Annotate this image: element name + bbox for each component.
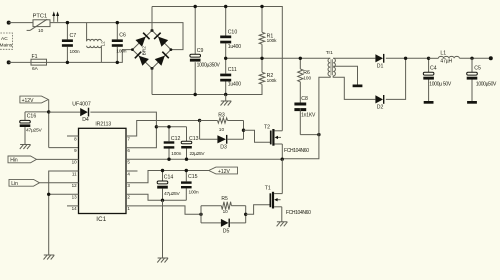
label box AC Mains xyxy=(0,33,13,49)
svg-text:C15: C15 xyxy=(188,174,198,180)
svg-text:C16: C16 xyxy=(27,114,37,120)
junction +12V node xyxy=(47,110,50,113)
svg-text:+12V: +12V xyxy=(22,98,34,104)
wire pin 1 to R5/D5 xyxy=(126,206,201,214)
svg-text:1u400: 1u400 xyxy=(228,44,242,50)
transistor T1 xyxy=(265,185,311,216)
junction C11 bottom xyxy=(224,93,227,96)
wire primary bottom to half-bridge midpoint xyxy=(282,76,330,159)
svg-text:1u400: 1u400 xyxy=(228,81,242,87)
wire mid rail xyxy=(226,57,331,59)
ground under C4 xyxy=(424,101,434,104)
ground under C11 xyxy=(221,95,232,106)
transistor T2 xyxy=(264,124,309,154)
svg-text:10: 10 xyxy=(72,160,78,165)
svg-text:D4: D4 xyxy=(82,117,89,123)
junction pin13/ground rail xyxy=(47,193,50,196)
svg-text:T2: T2 xyxy=(264,124,270,130)
svg-text:100k: 100k xyxy=(267,38,278,43)
svg-text:C13: C13 xyxy=(189,136,199,142)
junction C6 top xyxy=(116,21,119,24)
junction C10/C11 mid xyxy=(224,57,227,60)
junction snubber/primary node xyxy=(317,133,320,136)
wire to T2 gate xyxy=(244,130,271,142)
wire pin 6 to VB node xyxy=(126,127,156,148)
svg-text:C12: C12 xyxy=(171,136,181,142)
junction half-bridge midpoint xyxy=(281,158,284,161)
svg-text:1000µ 50V: 1000µ 50V xyxy=(429,81,452,87)
capacitor C12 xyxy=(164,127,182,159)
wire VS rail pin 5 to midpoint xyxy=(126,158,282,160)
svg-text:1: 1 xyxy=(127,206,130,211)
wire +12V node to D4 xyxy=(49,111,80,113)
svg-text:D5: D5 xyxy=(223,229,230,235)
wire Hin to pin 10 xyxy=(37,158,79,160)
svg-text:C6: C6 xyxy=(119,33,126,39)
svg-text:100k: 100k xyxy=(267,78,278,83)
net flag Lin xyxy=(9,179,40,187)
svg-text:3: 3 xyxy=(127,183,130,188)
capacitor C11 xyxy=(220,58,241,94)
svg-text:IR2113: IR2113 xyxy=(95,121,111,127)
resistor R6 xyxy=(298,58,312,102)
terminal AC neutral xyxy=(7,60,11,64)
junction C14 top xyxy=(161,169,164,172)
wire bridge minus to bottom rail xyxy=(151,69,153,95)
wire D1 cathode to output node xyxy=(386,57,429,59)
junction C9 bottom xyxy=(194,93,197,96)
svg-text:L2: L2 xyxy=(100,41,105,46)
wire AC neutral: F1 to bridge left vertex (jog) xyxy=(47,50,133,63)
wire T2 source to midpoint xyxy=(281,144,283,159)
junction VB node xyxy=(155,125,158,128)
resistor R2 xyxy=(259,58,277,94)
wire L1 to output terminal xyxy=(459,57,490,59)
svg-text:C10: C10 xyxy=(228,30,238,36)
wire C4 node to L1 xyxy=(429,57,439,59)
wire D2 cathode up to output node xyxy=(386,58,406,99)
junction bridge right vertex xyxy=(170,48,173,51)
diode D4 xyxy=(72,101,91,122)
svg-text:7: 7 xyxy=(127,136,130,141)
wire C8 to primary bottom node xyxy=(300,134,319,136)
transformer Tr1 xyxy=(326,50,336,76)
capacitor C7 xyxy=(62,23,80,63)
junction L1/C5 xyxy=(470,57,473,60)
svg-text:D2: D2 xyxy=(377,105,384,111)
wire to T1 gate xyxy=(246,205,270,215)
ground COM xyxy=(158,257,169,259)
svg-text:FCH104N60: FCH104N60 xyxy=(284,148,309,154)
svg-text:13: 13 xyxy=(72,195,78,200)
svg-text:1n1KV: 1n1KV xyxy=(301,112,316,118)
svg-text:+12V: +12V xyxy=(218,169,230,175)
svg-text:100: 100 xyxy=(303,76,311,81)
wire node to IC pin 9 xyxy=(49,147,79,149)
wire pin 2 to COM rail xyxy=(126,194,186,200)
wire secondary center tap xyxy=(333,66,357,84)
ground under C5 xyxy=(467,101,477,104)
junction C7 top xyxy=(66,21,69,24)
svg-text:IC1: IC1 xyxy=(96,216,107,223)
wire secondary bottom to D2 xyxy=(333,76,375,100)
svg-text:12: 12 xyxy=(72,183,78,188)
junction D1/D2 xyxy=(404,57,407,60)
wire bottom DC rail xyxy=(152,86,262,94)
power flag +12V (left) xyxy=(20,96,48,104)
junction C15 top xyxy=(185,169,188,172)
pin 4 stub xyxy=(126,170,138,172)
svg-text:1000µ350V: 1000µ350V xyxy=(197,62,221,68)
svg-text:10: 10 xyxy=(219,127,225,133)
svg-text:C7: C7 xyxy=(70,33,77,39)
svg-text:BR2: BR2 xyxy=(141,46,147,56)
svg-text:C5: C5 xyxy=(474,66,481,72)
capacitor C13 xyxy=(181,127,205,159)
svg-text:AC: AC xyxy=(1,36,8,42)
wire pin 3 to +12V rail xyxy=(126,171,209,183)
junction C6 bottom xyxy=(116,61,119,64)
capacitor C5 xyxy=(467,58,497,101)
junction bridge left vertex xyxy=(131,48,134,51)
svg-text:10: 10 xyxy=(38,28,44,34)
PTC1 thermistor xyxy=(27,13,50,34)
svg-text:FCH104N60: FCH104N60 xyxy=(286,210,311,216)
junction R5/D5 left xyxy=(199,213,202,216)
wire top DC rail xyxy=(152,7,282,131)
diode D2 xyxy=(375,95,384,111)
wire T1 source to ground xyxy=(281,207,283,222)
svg-text:UF4007: UF4007 xyxy=(72,101,91,107)
pin 14 stub xyxy=(67,205,79,207)
junction R1/R2 mid xyxy=(260,57,263,60)
wire T1 drain to midpoint xyxy=(281,159,283,193)
capacitor C9 xyxy=(190,7,221,95)
junction R3 left xyxy=(198,119,201,122)
capacitor C10 xyxy=(220,7,241,59)
fuse F1 xyxy=(31,54,47,72)
svg-text:T1: T1 xyxy=(265,185,271,191)
wire secondary top to D1 xyxy=(333,57,375,59)
svg-text:47µ25V: 47µ25V xyxy=(26,128,42,134)
wire ground stem xyxy=(162,200,164,258)
wire pin 7 to rail A xyxy=(126,121,200,137)
svg-text:Mains: Mains xyxy=(0,43,13,49)
capacitor C15 xyxy=(181,171,199,201)
ground T1 source xyxy=(277,221,288,223)
wire AC live: terminal to PTC1 xyxy=(9,22,33,24)
power flag +12V (mid) xyxy=(209,167,238,175)
wire +12V node to C16 xyxy=(25,111,49,113)
bridge rectifier BR2 xyxy=(132,30,171,68)
junction R1 top xyxy=(260,5,263,8)
wire pin 13 to ground rail xyxy=(49,193,79,195)
svg-text:Hin: Hin xyxy=(10,158,18,164)
resistor R3 xyxy=(200,112,244,133)
junction C12 top xyxy=(167,125,170,128)
svg-text:11: 11 xyxy=(72,171,77,176)
capacitor C4 xyxy=(423,58,452,101)
junction C10 top xyxy=(224,5,227,8)
wire pin 11 to ground rail xyxy=(49,171,79,255)
PTC1 arrows xyxy=(52,11,59,21)
svg-text:14: 14 xyxy=(72,206,78,211)
svg-text:L1: L1 xyxy=(440,51,446,57)
svg-text:Lin: Lin xyxy=(11,181,18,187)
svg-text:22µ25V: 22µ25V xyxy=(190,151,206,156)
svg-text:R5: R5 xyxy=(221,196,228,202)
svg-text:5: 5 xyxy=(127,160,130,165)
net flag Hin xyxy=(8,156,37,164)
pin 8 stub xyxy=(67,135,79,137)
junction bridge top vertex xyxy=(151,29,154,32)
junction C4 top xyxy=(427,57,430,60)
svg-text:10: 10 xyxy=(223,209,229,214)
svg-text:8: 8 xyxy=(74,136,77,141)
resistor R1 xyxy=(259,7,277,59)
svg-text:1000µ50V: 1000µ50V xyxy=(476,81,497,87)
ground under C16 xyxy=(20,144,31,146)
inductor L1 xyxy=(438,51,459,65)
junction bridge bottom vertex xyxy=(151,67,154,70)
resistor R5 xyxy=(201,196,246,223)
junction C7 bottom xyxy=(66,61,69,64)
wire VB rail xyxy=(156,126,186,128)
capacitor C6 xyxy=(112,23,127,63)
svg-text:47µH: 47µH xyxy=(440,59,452,65)
junction C14 bottom / ground xyxy=(161,199,164,202)
diode D1 xyxy=(375,54,384,70)
junction C12 bottom xyxy=(167,158,170,161)
terminal output xyxy=(489,56,493,60)
svg-text:C4: C4 xyxy=(430,66,437,72)
svg-text:4: 4 xyxy=(127,171,130,176)
junction T2 gate tap xyxy=(242,129,245,132)
capacitor C8 xyxy=(294,96,316,134)
capacitor C16 xyxy=(20,112,43,145)
svg-text:D1: D1 xyxy=(377,64,384,70)
diode D3 xyxy=(200,121,244,151)
wire AC neutral: terminal to F1 xyxy=(9,61,31,63)
svg-text:Tr1: Tr1 xyxy=(326,50,333,56)
svg-text:C11: C11 xyxy=(228,67,237,73)
svg-text:D3: D3 xyxy=(220,144,227,150)
svg-text:9: 9 xyxy=(74,148,77,153)
terminal AC live xyxy=(7,21,11,25)
svg-text:PTC1: PTC1 xyxy=(33,13,48,19)
op-amp IC1 IR2113 xyxy=(79,121,127,223)
junction C13 bottom xyxy=(185,158,188,161)
svg-text:100n: 100n xyxy=(171,151,181,156)
wire D4 cathode to VB node xyxy=(90,112,156,127)
svg-text:6: 6 xyxy=(127,148,130,153)
junction R6 top xyxy=(299,57,302,60)
svg-text:100n: 100n xyxy=(189,189,199,194)
svg-text:100n: 100n xyxy=(70,49,80,54)
capacitor C14 xyxy=(157,171,180,201)
svg-text:C9: C9 xyxy=(197,48,204,54)
wire +12V flag down to node xyxy=(48,100,50,148)
junction R5/D5 right xyxy=(244,213,247,216)
svg-text:R3: R3 xyxy=(218,112,225,118)
common-mode choke L2 xyxy=(87,23,106,63)
wire AC live: PTC1 to bridge right vertex (jog) xyxy=(50,23,183,50)
junction C9 top xyxy=(194,5,197,8)
ground logic xyxy=(44,254,55,256)
svg-text:F1: F1 xyxy=(32,54,38,60)
wire Lin to pin 12 xyxy=(40,182,79,184)
svg-text:C14: C14 xyxy=(164,175,174,181)
svg-text:C8: C8 xyxy=(301,96,308,102)
ground center tap xyxy=(353,85,363,88)
diode D5 xyxy=(201,206,246,235)
svg-text:100n: 100n xyxy=(116,49,126,54)
svg-text:2: 2 xyxy=(127,195,130,200)
svg-text:47µ25V: 47µ25V xyxy=(164,191,180,197)
wire bridge plus to top rail xyxy=(151,7,153,31)
svg-text:6A: 6A xyxy=(32,66,39,72)
